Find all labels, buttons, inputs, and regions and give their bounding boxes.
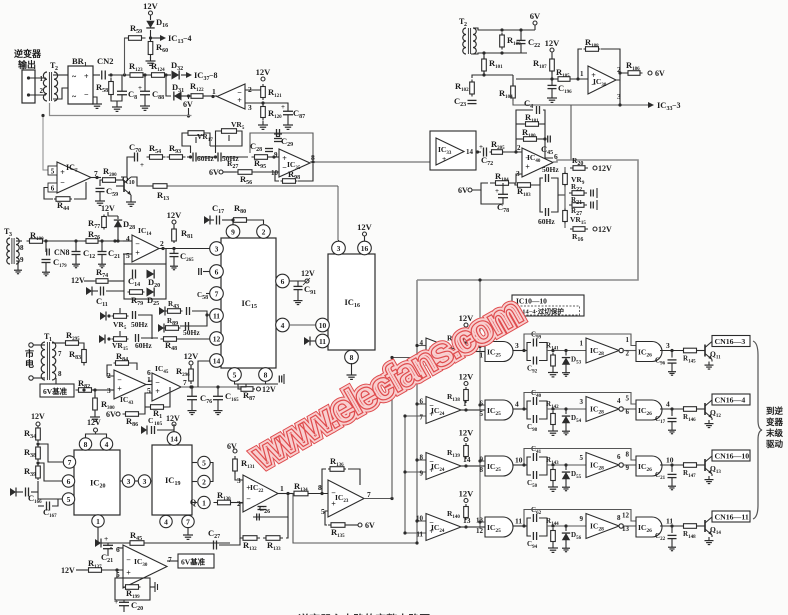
resistor R190: [27, 230, 46, 243]
AND gate IC26 ch4: [636, 517, 673, 538]
ground R199: [150, 582, 158, 592]
wire IC35 pin9: [268, 155, 279, 158]
capacitor C76b: [187, 388, 212, 415]
capacitor C28: [250, 141, 273, 153]
svg-text:12V: 12V: [71, 276, 85, 285]
resistor R148 ch4: [682, 524, 699, 540]
capacitor C26: [258, 505, 271, 515]
pin IC15-6r: [276, 274, 290, 288]
svg-text:7: 7: [168, 555, 172, 564]
wire R187 node: [516, 71, 557, 81]
power 12V ch1: [459, 313, 475, 327]
potentiometer VR15: [563, 207, 587, 226]
resistor R140 ch4: [447, 504, 468, 520]
svg-text:1: 1: [84, 62, 87, 68]
wire IC45 out: [181, 385, 246, 388]
resistor R131: [233, 456, 255, 474]
circle pin11 wire: [180, 313, 209, 326]
svg-text:7: 7: [186, 517, 190, 526]
text IC33-3: [657, 100, 681, 112]
svg-text:12V: 12V: [262, 385, 276, 394]
svg-text:12V: 12V: [545, 38, 561, 48]
wire IC38 pin2 out: [616, 71, 627, 80]
op-amp IC24 ch2: [420, 397, 468, 424]
wire IC25 bypass ch2: [522, 393, 636, 417]
op-amp IC38: [588, 65, 621, 101]
power 6V IC38out: [648, 69, 665, 78]
op-amp comparator U-left: [212, 84, 252, 112]
resistor R44 feedback: [44, 182, 86, 212]
resistor R83: [69, 343, 86, 366]
svg-text:+: +: [140, 161, 144, 169]
capacitor C22 ch4: [655, 526, 677, 551]
resistor R185: [556, 67, 573, 81]
resistor R205: [490, 139, 506, 154]
svg-text:10: 10: [515, 456, 523, 465]
svg-text:+: +: [60, 168, 65, 177]
wire R130 to IC22: [231, 502, 243, 504]
power 12V ch2: [459, 372, 475, 386]
resistor R93: [167, 143, 186, 159]
capacitor C20: [114, 597, 143, 612]
svg-text:−: −: [84, 90, 89, 99]
resistor R16: [570, 225, 612, 243]
power 6V ladder: [458, 183, 488, 195]
svg-text:+: +: [155, 387, 160, 396]
svg-text:C: C: [148, 416, 153, 425]
svg-text:驱动: 驱动: [766, 439, 784, 449]
resistor R120: [261, 104, 282, 121]
svg-text:11: 11: [416, 531, 423, 539]
power 12V top-left: [143, 1, 159, 15]
potentiometer VR17: [182, 131, 213, 153]
wire IC24 out ch2: [461, 408, 477, 411]
svg-text:5: 5: [147, 386, 151, 395]
wire IC43 pin3: [107, 389, 114, 391]
svg-text:3: 3: [237, 476, 241, 485]
svg-text:9: 9: [20, 256, 24, 264]
pin IC15-4r: [276, 318, 290, 332]
box 6V ref left: [40, 378, 74, 397]
svg-text:12V: 12V: [357, 222, 373, 232]
wire out to pin14: [198, 361, 210, 387]
resistor R141 ch1: [546, 342, 559, 369]
resistor R146 ch2: [682, 407, 699, 423]
wire IC26 out ch2: [660, 407, 683, 410]
transformer T1: [29, 332, 62, 380]
diode D16: [146, 15, 168, 38]
text drive label: [765, 406, 784, 449]
resistor R13: [131, 177, 171, 202]
svg-text:1: 1: [580, 70, 584, 78]
svg-text:6: 6: [51, 185, 55, 193]
svg-text:12V: 12V: [101, 204, 115, 213]
svg-text:市: 市: [25, 348, 34, 359]
power 12V IC15r: [289, 269, 315, 285]
capacitor C22: [517, 30, 541, 53]
capacitor C21 ch3: [655, 465, 677, 490]
resistor R183: [513, 183, 533, 198]
resistor R147 ch3: [682, 463, 699, 479]
resistor R200: [100, 166, 119, 182]
wire C70 left: [116, 157, 134, 180]
svg-text:+: +: [442, 154, 446, 163]
power 6V R131: [227, 442, 237, 453]
svg-text:8: 8: [318, 483, 322, 492]
svg-text:12: 12: [213, 334, 221, 343]
wire main node: [93, 73, 168, 76]
svg-text:8: 8: [626, 451, 630, 459]
wire IC15 top pins: [232, 224, 234, 225]
svg-text:12V: 12V: [301, 269, 315, 278]
ground Q11 ch1: [705, 360, 714, 370]
resistor R77: [88, 215, 106, 231]
svg-text:6V: 6V: [106, 410, 116, 419]
op-amp IC45: [152, 364, 187, 401]
IC IC19: [152, 445, 192, 515]
svg-text:6: 6: [626, 408, 630, 416]
bus vertical x480: [478, 278, 481, 529]
wire 6V drop: [187, 96, 190, 118]
svg-text:12V: 12V: [256, 67, 272, 77]
wire IC43 pin2: [107, 365, 114, 376]
resistor R76: [84, 229, 100, 243]
svg-text:50Hz: 50Hz: [183, 328, 200, 337]
bus x392: [391, 358, 393, 499]
resistor R102: [455, 80, 474, 97]
wire IC20 pin1 down: [97, 527, 99, 543]
resistor R87: [238, 384, 276, 402]
wire pin4 to pin10: [289, 324, 316, 326]
ladder rail: [564, 167, 566, 228]
wire caps to inv ch4: [547, 524, 586, 527]
resistor R1: [145, 387, 170, 420]
op-amp IC35: [271, 149, 315, 177]
resistor R143 ch3: [546, 456, 559, 483]
pin IC19-2r: [192, 475, 210, 487]
transformer T2b: [459, 17, 476, 54]
wire IC23 pin5: [325, 511, 328, 525]
arrow IC37-8: [186, 70, 218, 82]
wire IC24 out ch4: [461, 525, 477, 528]
wire pin9 up: [232, 220, 234, 224]
wire opamp pin3: [245, 101, 265, 104]
capacitor C179: [42, 257, 68, 276]
resistor R58: [96, 78, 113, 99]
diode D32: [166, 60, 186, 80]
svg-text:12V: 12V: [166, 414, 180, 423]
AND gate IC25 ch1: [477, 341, 519, 362]
node 6V junction: [187, 94, 190, 97]
resistor R121: [261, 84, 282, 100]
box D20 C14 R79 D25: [124, 249, 166, 300]
wire R101 node: [472, 71, 513, 78]
wire IC43 out: [146, 368, 152, 395]
resistor R145 ch1: [682, 348, 699, 364]
resistor R136 feedback: [322, 456, 360, 494]
svg-text:5: 5: [580, 454, 584, 462]
svg-text:1: 1: [280, 484, 284, 493]
resistor R122: [181, 81, 206, 98]
wire IC7 out: [91, 176, 101, 179]
capacitor 50Hz filter: [218, 153, 239, 164]
wire opamp out: [203, 95, 217, 98]
AND gate IC25 ch4: [476, 517, 522, 538]
wire IC19 pins bracket: [210, 463, 213, 482]
ground Q10: [126, 195, 136, 206]
pin IC19-7 bot: [182, 515, 194, 527]
potentiometer VR5b: [112, 308, 129, 331]
node R59-D16: [149, 36, 152, 39]
svg-text:8: 8: [617, 514, 621, 522]
svg-text:12V: 12V: [167, 210, 183, 220]
svg-text:5: 5: [51, 168, 55, 176]
svg-text:5: 5: [321, 507, 325, 516]
svg-text:2: 2: [160, 239, 164, 248]
connector CN16&#8212;3 ch1: [712, 336, 750, 347]
svg-text:12V: 12V: [184, 351, 200, 361]
wire IC14 pin5: [123, 241, 132, 254]
wire R59 riser: [125, 38, 128, 75]
svg-text:+: +: [237, 96, 242, 105]
transistor Q13 ch3: [697, 456, 721, 475]
svg-text:12V: 12V: [459, 489, 475, 499]
svg-text:−: −: [155, 378, 160, 387]
svg-text:6V: 6V: [365, 521, 375, 530]
svg-text:10: 10: [666, 456, 674, 465]
svg-text:6V: 6V: [183, 100, 193, 109]
capacitor bottom stub: [279, 374, 284, 384]
pin IC15-11: [210, 309, 224, 323]
box IC10-10 note: [512, 295, 584, 316]
svg-text:+: +: [138, 84, 142, 92]
resistor R295: [52, 330, 82, 345]
svg-text:60Hz: 60Hz: [197, 154, 214, 163]
capacitor C40 ch2: [527, 389, 547, 409]
wire IC38 pin3: [619, 80, 621, 105]
resistor R60: [148, 38, 168, 59]
inverter IC28 ch1: [580, 338, 624, 363]
svg-text:1: 1: [580, 340, 584, 348]
wire 6V to R56: [209, 168, 236, 177]
svg-text:3: 3: [580, 398, 584, 406]
resistor R45: [96, 530, 230, 545]
watermark elecfans: [244, 290, 529, 479]
svg-text:12V: 12V: [31, 412, 45, 421]
op-amp IC23: [321, 480, 371, 517]
capacitor C94 ch4: [527, 526, 547, 550]
capacitor C59: [96, 180, 119, 198]
wire D31 drop: [166, 75, 171, 96]
resistor R95: [252, 155, 271, 170]
svg-text:60Hz: 60Hz: [135, 341, 152, 350]
ground C196: [547, 89, 557, 102]
resistor R142 ch2: [546, 400, 559, 427]
svg-text:2: 2: [517, 144, 521, 152]
pin IC19-3l: [135, 475, 152, 487]
wire bus to IC7: [41, 114, 51, 170]
ground R60: [146, 57, 156, 65]
svg-text:−: −: [60, 178, 65, 187]
svg-text:IC14−4·过切保护: IC14−4·过切保护: [515, 307, 564, 316]
pin IC16-10: [316, 318, 330, 332]
resistor R132: [240, 536, 260, 552]
resistor R101: [482, 53, 503, 74]
capacitor C41 ch3: [527, 445, 547, 465]
svg-text:+: +: [479, 143, 483, 151]
svg-text:1: 1: [96, 517, 100, 526]
resistor R39: [24, 464, 40, 480]
ground R143 ch3: [548, 483, 558, 491]
ground R120: [258, 121, 268, 129]
wire R131 down: [235, 471, 243, 480]
svg-text:8: 8: [480, 466, 484, 474]
svg-text:12V: 12V: [459, 372, 475, 382]
svg-text:9: 9: [231, 227, 235, 236]
wire R104 down: [513, 98, 571, 105]
wire IC22 out: [278, 492, 293, 495]
svg-text:CN8: CN8: [54, 248, 70, 257]
svg-text:3: 3: [337, 244, 341, 253]
svg-text:CN16—11: CN16—11: [715, 513, 749, 522]
text R27: [227, 159, 238, 170]
resistor R20: [570, 156, 612, 173]
pin IC20-3r: [120, 475, 135, 487]
svg-text:CN16—10: CN16—10: [715, 452, 750, 461]
resistor R80: [222, 203, 264, 224]
ground IC16: [347, 363, 357, 379]
wire bottom long: [293, 494, 419, 545]
power 12V R121: [256, 67, 272, 81]
pin IC19-14 top: [167, 424, 181, 445]
wire IC28 out ch1: [623, 350, 637, 352]
wire IC25 bypass ch3: [522, 449, 636, 473]
ground IC19: [183, 527, 193, 539]
wire ladder right: [551, 178, 565, 212]
wire T2b rails: [471, 28, 535, 55]
resistor R84: [114, 351, 138, 370]
capacitor C70: [129, 142, 144, 169]
resistor R48: [161, 337, 211, 352]
svg-text:3: 3: [9, 232, 12, 238]
svg-text:3: 3: [248, 103, 252, 112]
zener diode D56 ch4: [562, 526, 582, 552]
potentiometer VR15b: [112, 331, 153, 352]
svg-text:2: 2: [262, 227, 266, 236]
transistor Q12 ch2: [697, 400, 721, 419]
wire IC28 out ch3: [623, 464, 637, 466]
svg-text:到逆: 到逆: [766, 406, 784, 416]
op-amp IC24 ch3: [420, 453, 471, 480]
transformer T2: [43, 61, 58, 101]
op-amp IC24 ch4: [416, 514, 471, 541]
capacitor C87: [263, 103, 305, 120]
capacitor C21b: [98, 241, 121, 268]
wire opamp pin2: [245, 86, 263, 90]
svg-text:6: 6: [215, 267, 219, 276]
svg-text:9: 9: [626, 464, 630, 472]
op-amp IC40: [516, 148, 558, 178]
wire IC33 out: [476, 143, 483, 154]
svg-text:1: 1: [49, 337, 52, 343]
svg-text:−3: −3: [672, 101, 681, 110]
resistor R59: [125, 23, 146, 40]
wire R82 to IC43: [82, 388, 107, 391]
pin IC15-6: [199, 265, 224, 279]
wire drop to box: [570, 105, 572, 160]
svg-text:6V: 6V: [209, 168, 219, 177]
svg-text:5: 5: [67, 495, 71, 504]
svg-text:3: 3: [127, 477, 131, 486]
svg-text:3: 3: [666, 341, 670, 350]
text bottom caption: [0, 608, 788, 615]
svg-text:+: +: [525, 163, 530, 172]
IC IC15: [221, 238, 276, 368]
pin IC15-9 top: [226, 225, 240, 239]
resistor R137 ch1: [447, 329, 468, 345]
svg-text:5: 5: [233, 370, 237, 379]
IC IC20: [74, 450, 120, 515]
arrow IC13-4: [151, 33, 192, 45]
wire IC15 bottom rail: [235, 381, 279, 384]
power 12V D28 rail: [101, 204, 118, 217]
box 6V ref right: [167, 554, 214, 568]
arrow C11: [86, 287, 98, 296]
ground Q12 ch2: [705, 418, 714, 428]
op-amp IC33 box: [430, 131, 476, 170]
capacitor CN2 series: [102, 71, 106, 80]
pin IC15-8 bot: [259, 368, 273, 382]
capacitor C166: [10, 488, 42, 506]
resistor R135: [328, 523, 348, 539]
inverter IC28 ch2: [580, 397, 624, 422]
wire T2 to BR1: [53, 75, 68, 99]
svg-text:+: +: [126, 569, 131, 578]
svg-text:−8: −8: [209, 71, 218, 80]
svg-text:6: 6: [420, 398, 424, 406]
wire col to pin6: [36, 461, 62, 481]
wire IC30 pin6: [110, 547, 123, 549]
svg-text:8: 8: [84, 440, 88, 449]
diode D28 zener: [114, 216, 135, 243]
svg-text:6: 6: [617, 453, 621, 461]
svg-text:CN16—3: CN16—3: [715, 337, 746, 346]
svg-text:BR: BR: [72, 56, 85, 66]
bus vertical x417: [416, 280, 418, 543]
capacitor row1: [131, 311, 148, 329]
svg-text:7: 7: [420, 414, 424, 422]
connector CN16&#8212;10 ch3: [712, 450, 750, 461]
transformer T3: [4, 227, 24, 274]
pin IC20-5: [62, 493, 74, 505]
svg-text:4: 4: [281, 321, 285, 330]
resistor R21: [569, 196, 597, 210]
op-amp IC24 ch1: [420, 338, 468, 365]
svg-text:5: 5: [480, 410, 484, 418]
svg-text:10: 10: [416, 515, 424, 523]
pin IC15-12: [210, 332, 224, 346]
pin IC15-14: [210, 354, 224, 368]
wire IC14 out: [159, 247, 210, 250]
power 12V IC16: [357, 222, 373, 241]
op-amp IC22: [237, 475, 284, 512]
capacitor C12: [72, 241, 96, 268]
svg-text:7: 7: [215, 289, 219, 298]
resistor R82: [76, 378, 95, 392]
svg-text:−: −: [246, 495, 251, 504]
resistor R74: [93, 267, 111, 283]
svg-text:−: −: [126, 555, 131, 564]
